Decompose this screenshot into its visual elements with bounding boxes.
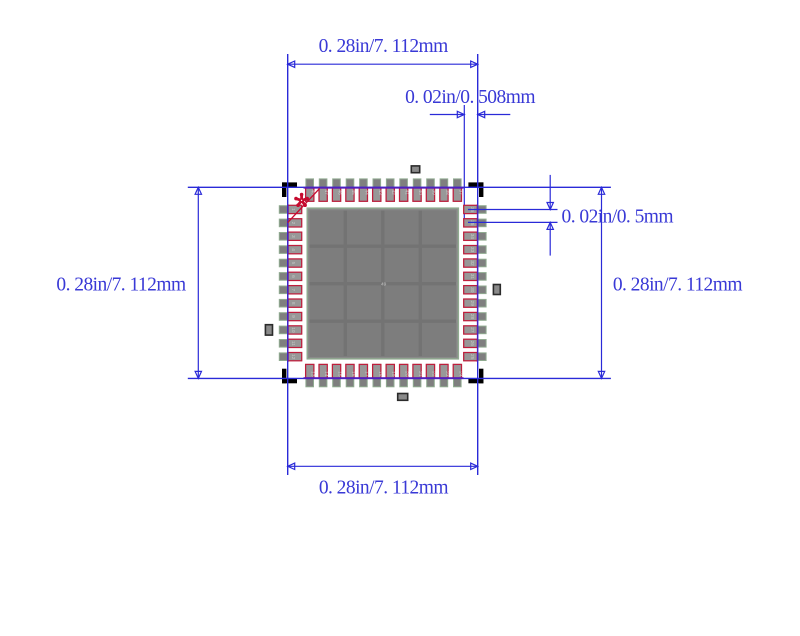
svg-text:43: 43 — [377, 190, 383, 196]
svg-text:47: 47 — [323, 190, 329, 196]
pin 47 pad (top) — [319, 179, 329, 201]
dimension line 0.28in/7.112mm (left) — [195, 187, 201, 378]
svg-text:13: 13 — [310, 371, 316, 377]
svg-text:2: 2 — [290, 222, 296, 225]
pin 35 pad (right) — [464, 219, 486, 227]
svg-text:0. 28in/7. 112mm: 0. 28in/7. 112mm — [56, 275, 186, 296]
pin 2 pad (left) — [279, 219, 301, 227]
dimension line 0.02in/0.508mm (top right) — [430, 111, 511, 117]
pin 37 pad (top) — [453, 179, 463, 201]
pin 17 pad (bottom) — [359, 364, 369, 386]
svg-text:7: 7 — [290, 288, 296, 291]
svg-text:15: 15 — [337, 371, 343, 377]
corner mark top-left — [282, 182, 297, 197]
pin 24 pad (bottom) — [453, 364, 463, 386]
svg-text:34: 34 — [469, 234, 475, 240]
svg-text:14: 14 — [323, 371, 329, 377]
corner mark bottom-right — [468, 369, 483, 384]
svg-text:27: 27 — [469, 327, 475, 333]
svg-text:41: 41 — [404, 190, 410, 196]
pin 8 pad (left) — [279, 299, 301, 307]
pin 18 pad (bottom) — [373, 364, 383, 386]
pin 40 pad (top) — [413, 179, 423, 201]
svg-text:17: 17 — [363, 371, 369, 377]
svg-text:20: 20 — [404, 371, 410, 377]
dimension line 0.28in/7.112mm (bottom) — [288, 463, 478, 469]
svg-text:19: 19 — [390, 371, 396, 377]
svg-text:28: 28 — [469, 314, 475, 320]
pin 30 pad (right) — [464, 286, 486, 294]
pin 13 pad (bottom) — [306, 364, 316, 386]
svg-text:29: 29 — [469, 301, 475, 307]
dimension line 0.28in/7.112mm (right) — [598, 187, 604, 378]
svg-text:16: 16 — [350, 371, 356, 377]
svg-text:0. 28in/7. 112mm: 0. 28in/7. 112mm — [319, 36, 449, 57]
pin 23 pad (bottom) — [440, 364, 450, 386]
svg-text:9: 9 — [290, 315, 296, 318]
corner mark top-right — [468, 182, 483, 197]
pin 46 pad (top) — [332, 179, 342, 201]
svg-text:6: 6 — [290, 275, 296, 278]
pin 20 pad (bottom) — [400, 364, 410, 386]
wire extension line top edge — [188, 186, 611, 188]
pin 25 pad (right) — [464, 353, 486, 361]
svg-text:35: 35 — [469, 220, 475, 226]
dimension line 0.02in/0.5mm (pitch, right) — [468, 175, 558, 256]
svg-text:42: 42 — [390, 190, 396, 196]
svg-text:23: 23 — [444, 371, 450, 377]
svg-text:1: 1 — [290, 208, 296, 211]
svg-text:18: 18 — [377, 371, 383, 377]
svg-text:39: 39 — [431, 190, 437, 196]
paste marker left — [265, 325, 272, 335]
svg-text:44: 44 — [363, 190, 369, 196]
pin 29 pad (right) — [464, 299, 486, 307]
pin 6 pad (left) — [279, 272, 301, 280]
svg-text:33: 33 — [469, 247, 475, 253]
svg-text:26: 26 — [469, 341, 475, 347]
pin 12 pad (left) — [279, 353, 301, 361]
svg-text:0. 02in/0. 5mm: 0. 02in/0. 5mm — [562, 206, 674, 227]
pin 42 pad (top) — [386, 179, 396, 201]
dimension line 0.28in/7.112mm (top) — [288, 61, 478, 67]
svg-text:30: 30 — [469, 287, 475, 293]
pin 11 pad (left) — [279, 339, 301, 347]
pin 32 pad (right) — [464, 259, 486, 267]
svg-text:3: 3 — [290, 235, 296, 238]
svg-text:0. 28in/7. 112mm: 0. 28in/7. 112mm — [613, 275, 743, 296]
pin 39 pad (top) — [426, 179, 436, 201]
svg-text:24: 24 — [457, 371, 463, 377]
pin 21 pad (bottom) — [413, 364, 423, 386]
svg-text:40: 40 — [417, 190, 423, 196]
svg-text:45: 45 — [350, 190, 356, 196]
pin 43 pad (top) — [373, 179, 383, 201]
svg-text:22: 22 — [431, 371, 437, 377]
wire extension line x=464 (0.508mm dim, left) — [463, 105, 465, 224]
svg-text:11: 11 — [290, 341, 296, 346]
svg-text:12: 12 — [290, 354, 296, 360]
pin 26 pad (right) — [464, 339, 486, 347]
pin 3 pad (left) — [279, 232, 301, 240]
svg-text:0. 02in/0. 508mm: 0. 02in/0. 508mm — [405, 87, 535, 108]
svg-text:49: 49 — [381, 282, 387, 288]
wire extension line bottom edge — [188, 377, 611, 379]
pin 48 pad (top) — [306, 179, 316, 201]
pin 41 pad (top) — [400, 179, 410, 201]
pin 1 indicator leader line — [288, 188, 320, 222]
pin 28 pad (right) — [464, 312, 486, 320]
svg-text:5: 5 — [290, 262, 296, 265]
pin 1 indicator asterisk — [294, 193, 309, 207]
pin 33 pad (right) — [464, 246, 486, 254]
paste marker bottom — [398, 394, 408, 401]
svg-text:0. 28in/7. 112mm: 0. 28in/7. 112mm — [319, 477, 449, 498]
pin 22 pad (bottom) — [426, 364, 436, 386]
svg-text:31: 31 — [469, 274, 475, 280]
svg-text:37: 37 — [457, 190, 463, 196]
pin 15 pad (bottom) — [332, 364, 342, 386]
pin 16 pad (bottom) — [346, 364, 356, 386]
pin 1 pad (left) — [279, 205, 301, 213]
pin 31 pad (right) — [464, 272, 486, 280]
pin 14 pad (bottom) — [319, 364, 329, 386]
svg-text:10: 10 — [290, 327, 296, 333]
pin 34 pad (right) — [464, 232, 486, 240]
svg-text:32: 32 — [469, 260, 475, 266]
svg-text:38: 38 — [444, 190, 450, 196]
pin 5 pad (left) — [279, 259, 301, 267]
paste marker right — [493, 285, 500, 295]
svg-text:21: 21 — [417, 371, 423, 377]
pin 27 pad (right) — [464, 326, 486, 334]
svg-text:25: 25 — [469, 354, 475, 360]
pin 38 pad (top) — [440, 179, 450, 201]
paste marker top — [411, 166, 419, 173]
pin 44 pad (top) — [359, 179, 369, 201]
pin 45 pad (top) — [346, 179, 356, 201]
pin 10 pad (left) — [279, 326, 301, 334]
exposed pad 49 (center) — [307, 208, 458, 359]
svg-text:8: 8 — [290, 302, 296, 305]
pin 19 pad (bottom) — [386, 364, 396, 386]
wire extension line left edge — [287, 54, 289, 475]
svg-text:4: 4 — [290, 248, 296, 251]
pin 36 pad (right) — [464, 205, 486, 213]
corner mark bottom-left — [282, 369, 297, 384]
pin 7 pad (left) — [279, 286, 301, 294]
wire extension line right edge — [477, 54, 479, 475]
pin 4 pad (left) — [279, 246, 301, 254]
svg-text:46: 46 — [337, 190, 343, 196]
pin 9 pad (left) — [279, 312, 301, 320]
